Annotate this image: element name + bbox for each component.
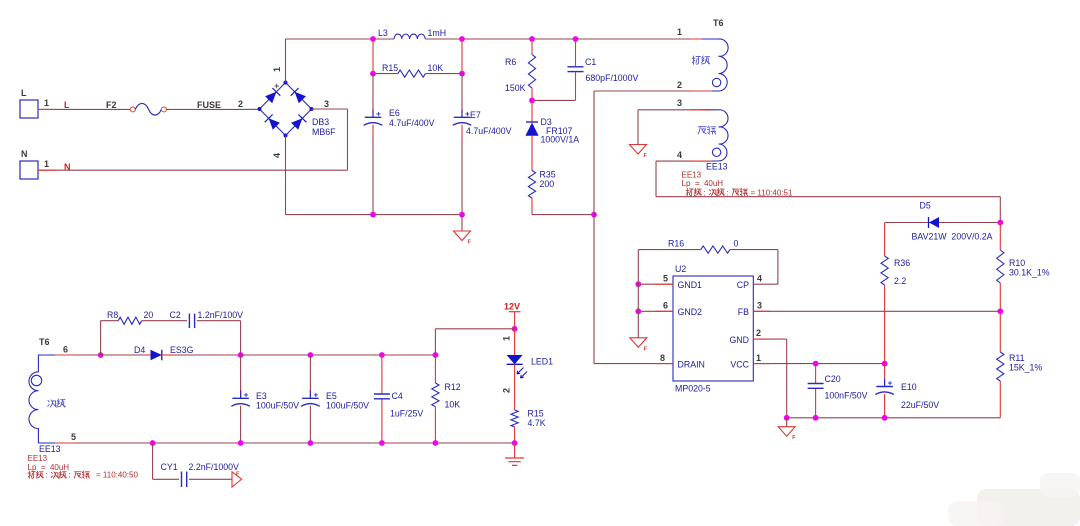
svg-text:Lp = 40uH: Lp = 40uH — [682, 179, 724, 188]
svg-text:L3: L3 — [378, 28, 388, 38]
svg-text:1: 1 — [44, 98, 49, 108]
wire U2 pin5 — [635, 274, 673, 288]
power flag 12V — [504, 302, 521, 332]
svg-text:= 110:40:51: = 110:40:51 — [751, 188, 793, 197]
svg-text:GND2: GND2 — [678, 307, 703, 317]
svg-text:R12: R12 — [445, 382, 461, 392]
svg-text:680pF/1000V: 680pF/1000V — [586, 73, 639, 83]
svg-text:3: 3 — [757, 301, 762, 311]
svg-text:R35: R35 — [540, 170, 556, 180]
ground primary F — [454, 215, 472, 246]
connector N — [20, 149, 49, 179]
svg-text:2: 2 — [677, 80, 682, 90]
svg-text:EE13: EE13 — [39, 444, 61, 454]
svg-text:150K: 150K — [505, 83, 526, 93]
transformer T6 feedback winding — [677, 98, 728, 172]
wire top rail right of L3 — [425, 38, 712, 40]
svg-text:12V: 12V — [504, 302, 520, 312]
svg-text:GND1: GND1 — [678, 280, 703, 290]
wire L to fuse — [38, 108, 130, 110]
svg-text:10K: 10K — [445, 400, 461, 410]
svg-text:1uF/25V: 1uF/25V — [390, 409, 423, 419]
capacitor C1 680pF — [529, 39, 638, 103]
svg-text:R36: R36 — [894, 258, 910, 268]
svg-text:T6: T6 — [39, 337, 50, 347]
svg-text:8: 8 — [660, 353, 665, 363]
capacitor E10 22uF — [875, 364, 939, 418]
capacitor C2 1.2nF — [170, 310, 244, 355]
svg-text:4: 4 — [757, 274, 762, 284]
wire pin6 line — [55, 352, 104, 358]
svg-text:3: 3 — [324, 99, 329, 109]
svg-text:E10: E10 — [901, 382, 917, 392]
svg-text:5: 5 — [71, 432, 76, 442]
wire U2 pin8 drain — [594, 353, 673, 364]
svg-text:2: 2 — [502, 388, 512, 393]
svg-text:R15: R15 — [528, 409, 544, 419]
svg-text:E5: E5 — [326, 391, 337, 401]
svg-text:MB6F: MB6F — [312, 127, 336, 137]
svg-text:1.2nF/100V: 1.2nF/100V — [198, 310, 244, 320]
svg-text:2.2: 2.2 — [894, 276, 906, 286]
capacitor C4 1uF — [374, 355, 423, 443]
wire U2 pin2 gnd — [753, 328, 786, 418]
svg-text:4: 4 — [272, 153, 282, 158]
wire drain vertical — [593, 215, 595, 364]
ground vcc F — [778, 418, 796, 441]
resistor R12 10K — [432, 355, 461, 443]
svg-text::: : — [704, 188, 706, 197]
svg-text:N: N — [21, 149, 28, 159]
wire N line — [38, 169, 348, 171]
wire bottom rail vcc — [784, 415, 1001, 421]
svg-text:R8: R8 — [107, 310, 118, 320]
svg-text:4.7K: 4.7K — [528, 418, 546, 428]
wire 12V to R12 node — [435, 329, 514, 355]
svg-text:C4: C4 — [392, 391, 403, 401]
svg-text:10K: 10K — [428, 63, 444, 73]
svg-text:1: 1 — [756, 353, 761, 363]
ground feedback F — [630, 145, 647, 155]
svg-text:F2: F2 — [106, 100, 117, 110]
svg-text:L: L — [21, 88, 27, 98]
inductor L3 — [378, 28, 446, 39]
svg-text:1: 1 — [502, 336, 512, 341]
wire U2 gnd drop — [637, 284, 639, 338]
svg-text:E7: E7 — [470, 110, 481, 120]
svg-text:2: 2 — [238, 99, 243, 109]
svg-text:R6: R6 — [505, 57, 516, 67]
wire T6 pin3 to ground — [638, 110, 712, 145]
svg-text:U2: U2 — [675, 264, 686, 274]
svg-text:C2: C2 — [170, 310, 181, 320]
resistor R10 30.1K — [997, 223, 1050, 312]
wire bridge pin1 up — [285, 39, 287, 83]
annotation ratio bottom — [28, 471, 138, 480]
svg-text:1mH: 1mH — [428, 28, 447, 38]
flag FE — [232, 472, 242, 488]
svg-text:DB3: DB3 — [312, 117, 329, 127]
svg-text:R11: R11 — [1009, 353, 1025, 363]
svg-text:6: 6 — [663, 301, 668, 311]
fuse F2 — [106, 100, 221, 115]
svg-text:4: 4 — [677, 150, 682, 160]
svg-text:15K_1%: 15K_1% — [1009, 363, 1042, 373]
svg-text:T6: T6 — [713, 18, 724, 28]
svg-text:100uF/50V: 100uF/50V — [256, 401, 299, 411]
svg-text:R15: R15 — [382, 63, 398, 73]
resistor R6 150K — [505, 39, 536, 100]
svg-text:1: 1 — [44, 159, 49, 169]
capacitor E6 — [364, 74, 435, 215]
connector L — [20, 88, 49, 118]
svg-text:DRAIN: DRAIN — [678, 360, 705, 370]
svg-text:30.1K_1%: 30.1K_1% — [1009, 268, 1050, 278]
diode D3 FR107 — [525, 100, 579, 144]
wire secondary bottom rail — [55, 440, 518, 446]
svg-text:100uF/50V: 100uF/50V — [326, 401, 369, 411]
svg-text:R10: R10 — [1009, 258, 1025, 268]
wire U2 pin3 FB — [753, 301, 1000, 312]
annotation EE13 bottom — [28, 454, 70, 472]
svg-text:R16: R16 — [668, 239, 684, 249]
svg-text:FB: FB — [738, 307, 749, 317]
wire bridge pin4 down — [285, 136, 287, 215]
svg-text:EE13: EE13 — [28, 454, 48, 463]
svg-text:20: 20 — [144, 310, 154, 320]
resistor R16 0 — [638, 239, 778, 285]
node top rail — [370, 36, 578, 42]
wire secondary top rail — [241, 352, 439, 358]
resistor R15 10K — [370, 39, 465, 77]
svg-text:E6: E6 — [389, 108, 400, 118]
resistor R8 20 snubber — [101, 310, 187, 355]
svg-text:E3: E3 — [256, 391, 267, 401]
svg-text:2: 2 — [756, 328, 761, 338]
svg-text:Lp = 40uH: Lp = 40uH — [28, 463, 70, 472]
svg-text:GND: GND — [729, 335, 749, 345]
LED LED1 — [502, 329, 554, 393]
ground U2 F — [630, 338, 647, 348]
svg-text:L: L — [64, 100, 70, 110]
capacitor E7 — [453, 74, 512, 215]
svg-text:CY1: CY1 — [161, 462, 178, 472]
svg-text::: : — [46, 471, 48, 480]
svg-text:0: 0 — [734, 239, 739, 249]
svg-text:4.7uF/400V: 4.7uF/400V — [389, 118, 435, 128]
svg-text:LED1: LED1 — [531, 357, 553, 367]
svg-text:4.7uF/400V: 4.7uF/400V — [466, 126, 512, 136]
svg-text:FUSE: FUSE — [197, 100, 221, 110]
IC U2 MP020-5 — [673, 264, 753, 394]
wire top rail left — [286, 38, 395, 40]
wire fuse to bridge — [166, 99, 259, 109]
annotation ratio top — [686, 188, 793, 197]
transformer T6 secondary — [29, 337, 76, 454]
svg-text:BAV21W 200V/0.2A: BAV21W 200V/0.2A — [912, 232, 993, 242]
svg-text:200: 200 — [540, 179, 555, 189]
capacitor CY1 2.2nF — [153, 443, 239, 487]
svg-text:1: 1 — [677, 27, 682, 37]
wire U2 pin6 — [635, 301, 673, 315]
svg-text:22uF/50V: 22uF/50V — [901, 400, 939, 410]
svg-text:5: 5 — [663, 274, 668, 284]
svg-text::: : — [69, 471, 71, 480]
wire bridge pin3 to N line — [312, 109, 348, 170]
watermark — [948, 473, 1080, 526]
svg-text:3: 3 — [677, 98, 682, 108]
svg-text:VCC: VCC — [730, 360, 749, 370]
wire U2 pin1 vcc — [753, 353, 887, 367]
diode D5 BAV21W — [885, 201, 1004, 242]
svg-text:D5: D5 — [920, 201, 931, 211]
svg-text:6: 6 — [63, 345, 68, 355]
svg-text:C1: C1 — [585, 57, 596, 67]
earth ground — [505, 443, 524, 465]
svg-text:= 110:40:50: = 110:40:50 — [96, 471, 138, 480]
bridge rectifier DB3 — [258, 67, 337, 158]
svg-text:EE13: EE13 — [706, 162, 728, 172]
diode D4 ES3G — [101, 345, 244, 360]
svg-text:D4: D4 — [134, 345, 145, 355]
resistor R35 200 — [528, 136, 555, 215]
svg-text:1000V/1A: 1000V/1A — [541, 135, 580, 145]
resistor R36 2.2 — [881, 223, 910, 364]
wire R35 to drain node — [532, 212, 597, 218]
resistor R15 4.7K — [511, 390, 546, 443]
transformer T6 primary — [677, 18, 728, 91]
svg-text:1: 1 — [272, 67, 282, 72]
capacitor C20 100nF — [808, 364, 868, 418]
annotation EE13 top — [682, 171, 724, 188]
svg-text:CP: CP — [737, 280, 749, 290]
capacitor E5 100uF — [301, 355, 369, 443]
svg-text:ES3G: ES3G — [170, 345, 194, 355]
resistor R11 15K — [997, 308, 1043, 417]
svg-text:C20: C20 — [825, 374, 841, 384]
svg-text:MP020-5: MP020-5 — [675, 384, 711, 394]
svg-text:N: N — [64, 162, 71, 172]
svg-text:2.2nF/1000V: 2.2nF/1000V — [189, 462, 240, 472]
svg-text::: : — [727, 188, 729, 197]
wire T6 pin2 to drain — [594, 91, 712, 215]
capacitor E3 100uF — [231, 355, 299, 443]
wire bottom rail primary — [286, 212, 465, 218]
svg-text:100nF/50V: 100nF/50V — [825, 391, 868, 401]
wire T6 pin4 feed — [656, 161, 1000, 222]
